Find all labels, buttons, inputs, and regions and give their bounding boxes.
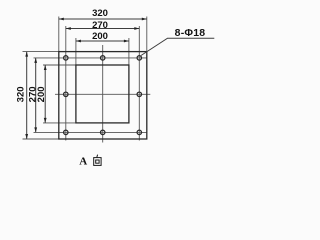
centerline horizontal plate axis: [55, 93, 150, 95]
hole mid-left phi18: [64, 92, 68, 96]
inner square opening 200x200: [76, 65, 129, 123]
extension line outer bottom-left: [23, 138, 59, 140]
dimension line 200 top: [76, 40, 129, 42]
svg-text:270: 270: [92, 20, 108, 31]
hole top-left phi18: [64, 56, 68, 60]
svg-text:320: 320: [92, 8, 108, 19]
dimension line 320 top: [59, 18, 147, 20]
extension line outer top-left: [23, 51, 59, 53]
centerline vertical plate axis: [102, 45, 104, 143]
svg-text:200: 200: [36, 86, 47, 102]
extension line outer top edge up-right: [146, 17, 148, 52]
centerline left hole column: [65, 26, 67, 141]
leader line for 8-phi18: [141, 38, 214, 55]
extension line outer top edge up-left: [58, 17, 60, 52]
svg-text:320: 320: [16, 86, 27, 102]
dimension line 320 left: [26, 52, 28, 139]
outer square plate outline 320x320: [59, 52, 147, 139]
hole mid-right phi18: [137, 92, 141, 96]
extension line inner top edge up-left: [75, 38, 77, 65]
centerline bottom hole row: [34, 131, 147, 133]
dimension line 200 left: [44, 65, 46, 123]
dimension line 270 top: [66, 28, 140, 30]
extension line inner bottom-left: [43, 122, 76, 124]
hole bottom-right phi18: [137, 130, 141, 134]
hole bottom-middle phi18: [101, 130, 105, 134]
hole top-middle phi18: [101, 56, 105, 60]
svg-text:8-Φ18: 8-Φ18: [175, 27, 206, 39]
hole top-right phi18: [137, 56, 141, 60]
caption xiang glyph: [94, 155, 101, 166]
extension line inner top edge up-right: [128, 38, 130, 65]
dimension line 270 left: [35, 58, 37, 132]
centerline right hole column: [138, 26, 140, 141]
svg-text:A: A: [79, 155, 87, 167]
svg-text:200: 200: [92, 31, 108, 42]
centerline top hole row: [34, 57, 147, 59]
hole bottom-left phi18: [64, 130, 68, 134]
extension line inner top-left: [43, 64, 76, 66]
